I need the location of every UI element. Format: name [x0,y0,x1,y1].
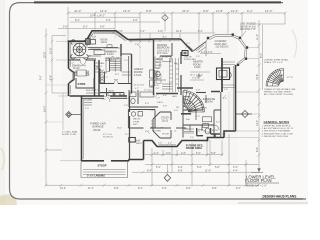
left rotated dim texts [40,48,53,112]
bottom-left tan smudge [0,194,17,205]
top dim line row 3 [70,21,160,23]
svg-text:DW: DW [88,56,92,58]
laundry fixtures [108,93,113,96]
bottom dim row A [145,154,223,156]
garage note rows [103,128,122,139]
svg-text:18'-0": 18'-0" [117,128,122,130]
right tick marks [258,24,261,157]
window line top-left wall [69,42,85,44]
svg-text:24'-2": 24'-2" [182,9,189,13]
svg-text:9'-2": 9'-2" [162,187,167,190]
svg-text:SEATING: SEATING [105,59,114,62]
wall y54 kitchen to great room [121,53,132,55]
svg-text:CL.: CL. [198,131,202,133]
svg-text:CL.: CL. [165,57,169,59]
svg-text:4'-6": 4'-6" [100,26,105,29]
svg-text:15'-6": 15'-6" [256,74,259,80]
great room left wall inner line [128,56,130,84]
svg-text:LNDG: LNDG [157,102,163,104]
svg-text:11" TR: 11" TR [287,77,294,79]
bottom dim row D long [46,184,259,186]
svg-text:11'-6": 11'-6" [205,169,211,172]
svg-text:16'-4" x 14'-2": 16'-4" x 14'-2" [90,14,105,17]
svg-text:14'-0": 14'-0" [265,9,272,13]
svg-text:13'-0": 13'-0" [123,9,130,13]
svg-text:6'-4": 6'-4" [196,116,200,118]
svg-text:LAUN.: LAUN. [108,90,115,93]
svg-text:5'-0": 5'-0" [156,62,160,64]
svg-text:SEAT: SEAT [76,58,82,61]
bottom dim row B [145,163,259,165]
svg-text:6'-0": 6'-0" [133,19,138,22]
foyer band wall y128 [160,127,186,129]
svg-text:22'-6": 22'-6" [44,52,47,58]
svg-text:REF: REF [96,67,101,69]
left dim vline inner [51,36,53,94]
svg-text:2x6 DECKG: 2x6 DECKG [216,46,229,49]
left extension horizontals [46,36,67,151]
master closet shelves [154,70,167,80]
label dining [72,65,81,71]
svg-text:DESIGN HAUS PLANS: DESIGN HAUS PLANS [263,194,297,198]
center room small box [184,97,190,104]
svg-text:10'-6": 10'-6" [124,98,130,100]
svg-text:5'-4": 5'-4" [156,166,161,169]
garage top shared wall [70,95,128,97]
svg-text:DN: DN [176,107,180,109]
canted wall down-right [181,39,193,52]
faint scan artifact curve top-right [292,30,297,58]
svg-text:2. ALL EXT WALLS 2x6 @ 16" OC: 2. ALL EXT WALLS 2x6 @ 16" OC [262,127,294,130]
deck label [215,40,229,49]
nook bay walls [86,31,128,41]
deck outline [208,35,247,65]
svg-text:9x11: 9x11 [133,124,138,126]
svg-text:3'-8": 3'-8" [163,106,167,108]
closet blob below mech [129,138,136,143]
breakfast bench [71,57,88,59]
hearth room window seat [196,45,206,53]
svg-text:9'-8": 9'-8" [146,9,152,13]
canted bay room walls [153,112,171,138]
svg-text:7'-0": 7'-0" [156,98,160,100]
svg-text:CURVED STAIR DETAIL: CURVED STAIR DETAIL [264,59,289,62]
canted wall inner line [182,41,193,50]
svg-text:PATIO: PATIO [136,142,142,145]
deck edge to house [206,38,208,56]
extra texts middle band [76,52,209,134]
mid wall left (dark) [100,92,124,94]
svg-text:10x11: 10x11 [101,41,108,44]
svg-text:4'-6": 4'-6" [181,152,186,155]
fan outer arc [266,69,284,87]
svg-text:5'-6": 5'-6" [150,110,154,112]
bottom wall with bay bump [144,138,225,147]
svg-text:9'-4": 9'-4" [260,53,263,58]
bottom dim texts [60,152,241,190]
deck corner posts [207,33,248,66]
curved stair inner arc [183,107,189,113]
svg-text:3'-0": 3'-0" [174,110,178,112]
svg-text:5'-0": 5'-0" [197,166,202,169]
stair side walls [110,56,122,72]
svg-text:11'-4": 11'-4" [88,187,94,190]
fireplace blob at canted vertex [182,51,188,56]
svg-text:4. INSULATE PER LOCAL CODE: 4. INSULATE PER LOCAL CODE [262,132,294,135]
svg-text:7'-4": 7'-4" [124,60,128,62]
label kitchen [105,51,120,63]
svg-text:5'-0": 5'-0" [158,143,162,145]
bottom band texts [154,128,218,134]
faint long interior extension lines [46,29,229,131]
closet hatch marks [170,62,179,84]
top dim texts row1 [74,9,272,13]
sheet border frame [10,3,307,199]
stair detail heading [264,59,289,65]
svg-text:8'-6": 8'-6" [114,187,119,190]
title text [245,174,276,183]
garage corner steps [84,100,92,105]
wic hang rods [162,84,172,89]
bottom dim vline through diamond [166,164,168,174]
svg-text:5'-8": 5'-8" [211,152,216,155]
svg-text:SCALE: 1/4" = 1'-0": SCALE: 1/4" = 1'-0" [246,184,267,187]
left tick marks [45,34,54,152]
svg-text:6'-2": 6'-2" [236,187,241,190]
svg-text:4'-0": 4'-0" [70,63,74,65]
svg-text:9'-6": 9'-6" [186,187,191,190]
svg-text:14x16: 14x16 [194,66,201,69]
label billiard room [157,44,170,55]
right rotated dim texts [256,34,263,152]
left faint extension vline [62,93,64,130]
window double-lines on exterior [69,32,234,159]
right dim vline inner [262,25,264,90]
recess left wall [143,141,145,160]
center room cross symbol [197,74,202,79]
top dim diamond marker [162,15,168,21]
center small walls [180,52,182,95]
svg-text:3'-2": 3'-2" [125,134,129,136]
svg-text:GENERAL NOTES: GENERAL NOTES [264,120,290,124]
great room left wall [131,54,133,94]
bath fixtures right of garage [130,92,136,97]
left page edge shading [0,0,5,205]
left exterior wall [68,41,70,96]
label exercise room [203,98,215,104]
bottom extension verticals [152,134,246,186]
top dim line row 4b [112,32,215,34]
svg-text:8'-6": 8'-6" [163,37,167,39]
svg-text:3'-4": 3'-4" [222,134,226,136]
bay bump window mullions [159,145,177,147]
svg-text:DECKING TYP.: DECKING TYP. [240,29,256,31]
exercise bath fixtures [203,117,212,122]
top dim line row 2 [70,16,140,18]
canted window wall (lighter) [193,42,207,52]
dining canted bay in left wall [69,69,75,84]
hall band texts [86,90,125,97]
curved stair mid arc [183,99,196,112]
svg-text:9'-0": 9'-0" [119,36,123,38]
master bath counter [154,56,161,68]
svg-text:10'-0": 10'-0" [60,187,66,190]
label bay room [161,117,170,123]
pantry shelves [95,63,99,72]
stair detail fan [266,69,284,87]
hall wall lower-left [100,83,132,85]
svg-text:4'-2": 4'-2" [135,88,139,90]
garage top wall second line [82,97,128,99]
svg-text:SLOPE TO DR.: SLOPE TO DR. [62,134,77,136]
svg-text:MECH/: MECH/ [133,119,140,121]
svg-text:6'-8": 6'-8" [178,169,183,172]
hearth center extra [190,72,210,80]
powder room walls [100,69,105,84]
top dim line row 2b [248,23,285,25]
fan outer arc double [268,70,284,86]
margin extension lines (right) [224,48,259,138]
window line dining bay [69,70,72,82]
deck inner line [210,36,246,63]
svg-text:6'-2": 6'-2" [90,39,94,41]
svg-text:3'-6": 3'-6" [166,152,171,155]
svg-text:14'-2" x 16'-6": 14'-2" x 16'-6" [190,75,203,77]
svg-text:3'-0": 3'-0" [85,108,89,110]
svg-text:8'-4": 8'-4" [138,187,143,190]
powder fixtures [100,75,104,80]
billiard left wall [153,39,155,95]
svg-text:4'-2": 4'-2" [154,152,159,155]
kitchen sink [107,45,112,48]
label great room [134,67,143,77]
svg-text:3'-2": 3'-2" [104,77,108,79]
svg-text:2'-4": 2'-4" [88,99,92,101]
svg-text:9'-0": 9'-0" [40,75,43,80]
top wall over billiard [154,38,181,40]
thick interior wall right of center [221,58,223,92]
svg-text:9'-8": 9'-8" [212,187,217,190]
leader line from deck note [242,31,246,36]
svg-text:10'-4": 10'-4" [231,9,238,13]
svg-text:SCALE: 1/2" = 1'-0": SCALE: 1/2" = 1'-0" [264,61,283,64]
kitchen island [94,50,105,55]
curved stair treads [183,91,205,113]
closet poles bottom band [184,130,203,134]
closet texts right of pantry [100,62,106,79]
storage room rect [76,78,94,88]
pantry walls [95,60,100,96]
svg-text:3'-0": 3'-0" [190,137,194,139]
svg-text:BATH: BATH [201,107,207,110]
svg-text:12'-0" CLG: 12'-0" CLG [134,85,145,87]
svg-text:5'-8": 5'-8" [215,166,220,169]
band walls below mech [128,127,160,129]
svg-text:6'-0": 6'-0" [115,74,119,76]
top dim texts rows 2-4 [63,14,203,33]
window line nook bay [88,32,126,41]
top border darker overdraw [34,1,281,3]
svg-text:8'-0": 8'-0" [256,147,259,152]
svg-text:4'-2": 4'-2" [168,143,172,145]
small dim at deck left [200,53,221,55]
label mech room [133,119,140,127]
door arc dining [80,60,86,66]
svg-text:3'-6": 3'-6" [95,90,99,92]
svg-text:8'-0": 8'-0" [75,19,80,22]
svg-text:ABOVE W/ 2x6: ABOVE W/ 2x6 [240,25,256,28]
hall walls mid-left band [107,88,125,96]
svg-text:2'-4": 2'-4" [205,132,209,134]
svg-text:2'-8": 2'-8" [196,56,200,58]
svg-text:4'-4": 4'-4" [233,169,238,172]
window line left wall [69,44,71,94]
svg-text:12'-4": 12'-4" [100,9,107,13]
door arc hall [114,80,118,84]
stair treads [110,59,122,70]
svg-text:CL.: CL. [149,90,153,92]
row1 tick marks [67,12,287,15]
svg-text:SHWR: SHWR [156,65,163,67]
window line right wall [233,66,235,130]
hearth room upper texts [184,57,196,62]
svg-text:6'-8": 6'-8" [163,95,167,97]
dining table [77,70,86,76]
stair hall dark stub [181,113,191,115]
kitchen right wall upper [120,44,122,56]
kitchen appliances dark cluster [86,39,91,45]
bath lower-right door arc [214,125,219,130]
svg-text:LINE OF DECK: LINE OF DECK [240,24,256,26]
svg-text:2'-6": 2'-6" [156,88,160,90]
right closet lines by fireplace [223,62,235,88]
svg-text:2'-8": 2'-8" [136,140,140,142]
foyer band extra texts [162,131,207,140]
kitchen wall cabinets [87,43,120,50]
label center room [193,61,203,70]
svg-text:14'-0": 14'-0" [44,106,47,112]
svg-text:1. VERIFY ALL DIMS IN FIELD: 1. VERIFY ALL DIMS IN FIELD [262,125,291,128]
margin extension lines (left) [56,41,81,161]
curved stair outer arc [183,91,205,113]
leader lines scatter [137,44,226,134]
svg-text:5. SMOKE DET. PER CODE: 5. SMOKE DET. PER CODE [262,136,289,138]
right exterior wall [235,65,237,131]
window mullion marks great room [131,39,170,42]
svg-text:UP 14R: UP 14R [162,134,170,136]
fan inner arc [279,81,284,86]
svg-text:5'-0": 5'-0" [196,136,200,138]
svg-text:5'-0": 5'-0" [196,152,201,155]
label breakfast nook [101,39,108,45]
svg-text:9'-0" CLG.: 9'-0" CLG. [157,52,168,55]
hall closet hatch [101,70,105,74]
laundry counter [86,92,106,94]
master bath tub [162,57,171,62]
top dim line row 4 [58,28,115,30]
svg-text:SOFFIT ABV: SOFFIT ABV [184,58,196,61]
kitchen lower cabinets [88,56,101,59]
svg-text:9'-6": 9'-6" [203,9,209,13]
svg-text:4'-0": 4'-0" [216,122,220,124]
svg-text:5'-2": 5'-2" [186,43,190,45]
svg-text:3'-8": 3'-8" [196,90,200,92]
svg-text:8'-4": 8'-4" [147,169,152,172]
svg-text:2'-8": 2'-8" [124,105,128,107]
svg-text:2'-6": 2'-6" [224,89,228,91]
hall wall right of stair [196,92,206,94]
garage slab note [62,131,78,137]
svg-text:BA.: BA. [174,62,178,65]
nook plant scribble [88,35,96,38]
label future rec note dark [186,143,204,150]
misc small dim texts inside plan [85,57,227,111]
svg-text:41'-0": 41'-0" [74,9,81,13]
svg-text:3. SEE STRUCT FOR BEAMS: 3. SEE STRUCT FOR BEAMS [262,130,291,133]
garage bottom right step [129,160,144,161]
svg-text:6'-2": 6'-2" [247,9,253,13]
svg-text:FLOOR PLAN: FLOOR PLAN [245,178,272,183]
right dim vline outer [258,20,260,168]
wall above curved stair [177,87,193,89]
window line garage left [82,98,84,159]
svg-text:FOYER: FOYER [154,131,162,133]
svg-text:11'-2": 11'-2" [256,34,259,40]
left dim vline outer [45,29,47,187]
svg-text:8'-0": 8'-0" [145,103,149,105]
water heater + furnace [131,112,135,116]
foyer extra lines [162,127,181,129]
dining chairs [75,71,77,73]
foyer closet lines [184,129,194,132]
svg-text:ROOM: ROOM [205,101,212,104]
svg-text:4'-8": 4'-8" [223,98,227,100]
mid wall dark center [156,93,178,95]
mid wall right dark [211,91,220,93]
billiard closet wall [160,43,172,56]
nook bay seat lines [89,33,125,40]
master bath text stack [156,57,168,97]
bottom-right corner walls [224,131,236,138]
stoop step lines [83,170,126,175]
svg-text:MUD RM: MUD RM [86,90,95,92]
svg-text:STOR.: STOR. [78,82,87,86]
top extension verticals [68,7,285,41]
bath texts lower right [186,107,207,122]
door arc mud [104,96,110,102]
firm underline [261,198,303,200]
svg-text:13'-4": 13'-4" [256,120,259,126]
bottom band interior dark stubs [197,128,220,138]
bath cluster walls right of garage [129,90,158,107]
bath small rects [156,75,161,79]
window bay mullions [151,121,153,127]
svg-text:5'-0": 5'-0" [63,26,68,29]
svg-text:LIN.: LIN. [149,87,153,89]
svg-text:PAN.: PAN. [100,62,105,65]
svg-text:ROOM AREA: ROOM AREA [186,146,202,150]
stair bottom rail [106,59,110,72]
garage right wall [129,96,131,160]
svg-text:17x21: 17x21 [134,73,142,77]
wall under breakfast [69,59,96,61]
svg-text:W.C.: W.C. [156,72,161,74]
stair rail line [114,59,116,72]
kitchen counter line [88,48,118,50]
svg-text:HALL: HALL [172,95,178,98]
top dim line row 1 [68,12,285,14]
bay bump texts [136,141,172,145]
